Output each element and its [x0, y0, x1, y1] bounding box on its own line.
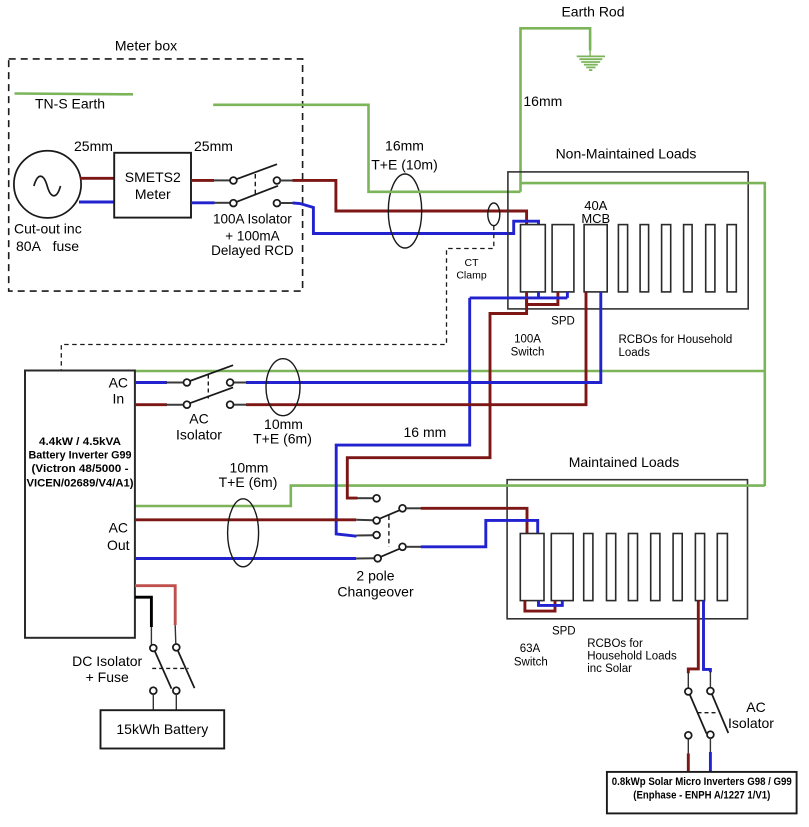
wire N meter to isolator — [191, 201, 215, 204]
CU1 Non-Maintained Loads enclosure — [508, 146, 748, 309]
CU1 label RCBOs — [619, 334, 733, 359]
svg-text:100A Isolator: 100A Isolator — [213, 212, 292, 227]
svg-text:SMETS2: SMETS2 — [125, 169, 181, 185]
CT clamp — [61, 203, 500, 371]
wire L inverter AC Out to changeover — [135, 518, 356, 521]
svg-text:63A: 63A — [520, 643, 541, 655]
svg-text:Switch: Switch — [511, 347, 545, 359]
svg-text:T+E (6m): T+E (6m) — [219, 474, 278, 490]
CU2 63A switch module — [520, 534, 544, 601]
svg-text:AC: AC — [746, 699, 765, 715]
cut-out inc 80A fuse — [14, 151, 82, 254]
earth conductor meter box to CU1 — [213, 105, 520, 192]
wire L isolator to CU1 — [293, 180, 527, 224]
CU1 SPD module — [552, 225, 574, 292]
CU2 RCBO modules — [584, 534, 728, 601]
svg-text:RCBOs for Household: RCBOs for Household — [619, 334, 733, 346]
CU1 busbar link L switch to SPD — [527, 292, 558, 305]
svg-text:Isolator: Isolator — [728, 715, 774, 731]
svg-text:+ Fuse: + Fuse — [86, 669, 129, 685]
TN-S earth stub — [15, 94, 134, 112]
DC isolator SW5 + fuse — [72, 625, 194, 710]
CU1 40A MCB module — [581, 198, 610, 292]
cable marker 10mm T+E (6m) AC In — [253, 359, 312, 447]
cable marker 16mm T+E (10m) — [371, 138, 438, 249]
feed L 40A MCB to inverter AC In — [246, 292, 586, 405]
isolator SW1 100A + RCD — [211, 164, 294, 258]
wire N cut-out to meter — [79, 201, 114, 204]
svg-text:4.4kW / 4.5kVA: 4.4kW / 4.5kVA — [39, 436, 121, 448]
earth AC In inverter to right riser — [135, 370, 765, 373]
wire L changeover to CU2 — [421, 508, 527, 533]
svg-text:Switch: Switch — [514, 657, 548, 669]
svg-text:25mm: 25mm — [74, 138, 113, 154]
SMETS2 meter — [114, 153, 191, 218]
CU1 busbar link N switch to SPD — [470, 292, 568, 298]
svg-text:inc Solar: inc Solar — [587, 663, 632, 675]
wire N inverter AC In to isolator — [135, 381, 167, 384]
earth run CU1 to CU2 (right riser) — [521, 183, 765, 486]
svg-text:T+E (6m): T+E (6m) — [253, 431, 312, 447]
grid branch N to changeover — [336, 298, 470, 536]
CU2 SPD module — [551, 534, 573, 601]
wire L inverter AC In to isolator — [135, 403, 167, 406]
CU2 Maintained Loads enclosure — [507, 454, 747, 619]
AC isolator SW2 — [166, 365, 246, 442]
solar wire N isolator to inverters — [709, 752, 712, 772]
svg-text:VICEN/02689/V4/A1): VICEN/02689/V4/A1) — [27, 478, 134, 490]
wire N isolator to CU1 — [293, 203, 539, 234]
svg-text:DC Isolator: DC Isolator — [72, 653, 142, 669]
solar micro inverters box — [607, 772, 797, 814]
CU2 label RCBOs inc Solar — [587, 638, 677, 675]
svg-text:2 pole: 2 pole — [356, 568, 394, 584]
svg-text:Non-Maintained Loads: Non-Maintained Loads — [556, 146, 697, 162]
svg-text:In: In — [112, 391, 124, 407]
wire N changeover to CU2 — [421, 520, 538, 546]
svg-text:SPD: SPD — [551, 316, 575, 328]
wire L cut-out to meter — [80, 177, 114, 180]
svg-text:TN-S Earth: TN-S Earth — [35, 96, 105, 112]
svg-text:Changeover: Changeover — [337, 584, 414, 600]
svg-text:100A: 100A — [514, 334, 541, 346]
svg-text:Delayed RCD: Delayed RCD — [211, 243, 294, 258]
earth AC Out inverter to CU2 — [135, 486, 765, 506]
svg-text:80A fuse: 80A fuse — [16, 238, 79, 254]
svg-text:Meter: Meter — [135, 186, 171, 202]
wire N inverter AC Out to changeover — [135, 557, 356, 560]
svg-text:Battery Inverter G99: Battery Inverter G99 — [29, 450, 132, 462]
svg-text:Maintained Loads: Maintained Loads — [569, 454, 680, 470]
solar feed wire L — [688, 601, 698, 674]
svg-text:CT: CT — [465, 257, 480, 269]
svg-text:16mm: 16mm — [385, 138, 424, 154]
cable marker 10mm T+E (6m) AC Out — [219, 460, 278, 567]
svg-text:(Enphase - ENPH A/1227 1/V1): (Enphase - ENPH A/1227 1/V1) — [633, 790, 770, 802]
CU2 busbar link L switch to SPD — [525, 601, 555, 612]
svg-text:Out: Out — [107, 537, 130, 553]
svg-text:Cut-out inc: Cut-out inc — [14, 221, 82, 237]
svg-text:Clamp: Clamp — [456, 270, 487, 282]
solar feed wire N — [704, 601, 711, 673]
svg-text:Meter box: Meter box — [115, 38, 177, 54]
earth rod riser 16mm — [521, 4, 625, 192]
svg-text:T+E (10m): T+E (10m) — [371, 157, 438, 173]
solar wire L isolator to inverters — [687, 753, 690, 772]
svg-text:SPD: SPD — [552, 626, 576, 638]
svg-text:0.8kWp Solar Micro Inverters G: 0.8kWp Solar Micro Inverters G98 / G99 — [612, 776, 792, 788]
earth rod ground symbol — [577, 56, 605, 70]
svg-text:Loads: Loads — [619, 347, 651, 359]
svg-text:16 mm: 16 mm — [404, 424, 447, 440]
grid branch L to changeover — [347, 298, 526, 498]
svg-text:+ 100mA: + 100mA — [225, 229, 279, 244]
DC wire - inverter to isolator — [135, 597, 151, 627]
solar AC isolator SW4 — [685, 672, 774, 753]
battery inverter U1 — [25, 371, 135, 638]
wire L meter to isolator — [191, 179, 214, 182]
CU1 100A switch module — [521, 225, 546, 292]
feed N 40A MCB to inverter AC In — [246, 292, 601, 383]
svg-text:15kWh Battery: 15kWh Battery — [116, 721, 208, 737]
CU1 label 100A Switch — [511, 334, 545, 359]
2 pole changeover switch SW3 — [337, 495, 421, 600]
svg-text:AC: AC — [189, 411, 208, 427]
svg-text:MCB: MCB — [581, 211, 610, 226]
CU2 label 63A Switch — [514, 643, 548, 669]
svg-text:RCBOs for: RCBOs for — [587, 638, 643, 650]
CU2 busbar link N switch to SPD — [539, 601, 563, 606]
DC wire + inverter to isolator — [135, 586, 175, 625]
svg-text:25mm: 25mm — [194, 138, 233, 154]
CU1 RCBO modules — [618, 225, 736, 292]
svg-text:AC: AC — [109, 520, 128, 536]
battery 15kWh — [101, 710, 225, 748]
svg-text:AC: AC — [109, 375, 128, 391]
svg-text:Earth Rod: Earth Rod — [561, 4, 624, 20]
svg-text:16mm: 16mm — [523, 93, 562, 109]
meter box enclosure — [9, 38, 303, 292]
svg-text:(Victron 48/5000 -: (Victron 48/5000 - — [32, 463, 129, 475]
svg-text:Isolator: Isolator — [176, 427, 222, 443]
svg-text:Household Loads: Household Loads — [587, 651, 677, 663]
